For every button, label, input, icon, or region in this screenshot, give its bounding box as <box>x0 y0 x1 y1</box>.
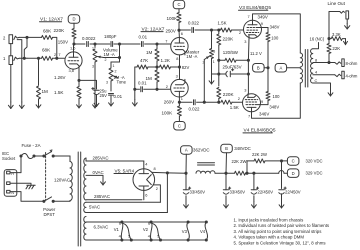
svg-text:1.5K: 1.5K <box>218 21 227 26</box>
svg-text:33/450V: 33/450V <box>190 189 206 194</box>
resistor 68K bottom <box>27 57 42 59</box>
tube V2 lower triode flipped <box>171 79 189 97</box>
svg-text:C: C <box>292 159 295 164</box>
svg-text:9: 9 <box>261 99 263 104</box>
svg-text:1.5K: 1.5K <box>230 105 239 110</box>
ground common <box>330 90 332 97</box>
svg-text:2: 2 <box>238 96 240 101</box>
svg-text:A: A <box>280 65 283 70</box>
svg-text:120VAC: 120VAC <box>54 177 70 182</box>
tube V2 upper triode <box>171 38 188 55</box>
svg-text:1.5K: 1.5K <box>54 90 64 95</box>
svg-text:4-ohm: 4-ohm <box>346 73 358 78</box>
ground jack sleeve <box>10 102 12 109</box>
svg-text:25V: 25V <box>100 93 108 98</box>
wire jack2 shorting contact down <box>17 40 22 102</box>
wire jack2 tip <box>19 36 27 38</box>
svg-text:220K: 220K <box>223 37 235 42</box>
svg-text:1. Input jacks insulated from: 1. Input jacks insulated from chassis <box>234 217 305 222</box>
capacitor 22/450V on rail <box>253 173 255 190</box>
wire to V2 lower grid <box>157 88 171 90</box>
svg-text:33/450V: 33/450V <box>230 189 246 194</box>
node V2 lower plate <box>178 97 180 102</box>
resistor 22K 2W lower <box>226 172 235 174</box>
svg-text:349V: 349V <box>258 15 268 20</box>
ground cap2 <box>225 202 227 209</box>
wire 47K to ground bus <box>134 67 136 89</box>
svg-text:68K: 68K <box>43 28 52 33</box>
chassis ground IEC <box>10 183 31 185</box>
wire up to 22K upper row <box>245 172 248 175</box>
svg-text:1: 1 <box>213 60 215 64</box>
wire 68K top to grid node <box>53 37 57 58</box>
svg-text:V2: V2 <box>143 227 149 232</box>
node rectifier output <box>166 171 169 174</box>
svg-text:1,6: 1,6 <box>70 45 75 50</box>
transformer OT secondary <box>311 49 313 83</box>
svg-text:C: C <box>315 78 318 83</box>
transformer PT 5V winding <box>84 202 86 212</box>
svg-text:346V: 346V <box>259 112 269 117</box>
svg-text:1: 1 <box>92 47 94 51</box>
svg-text:120/5W: 120/5W <box>223 50 239 55</box>
svg-text:47K: 47K <box>140 58 149 63</box>
node D junction on rail <box>252 172 255 175</box>
capacitor 0.01 coupling <box>141 42 143 47</box>
svg-text:Tone: Tone <box>117 80 127 85</box>
wire common tap <box>313 83 331 90</box>
resistor 1.5K V3 grid <box>221 28 232 32</box>
node screen bus <box>266 66 269 69</box>
svg-text:0.0022: 0.0022 <box>82 36 96 41</box>
wire to node C box <box>282 160 288 162</box>
ground volume <box>94 102 96 109</box>
svg-text:0.022: 0.022 <box>188 21 200 26</box>
node V2 upper plate <box>177 29 180 32</box>
svg-text:100K: 100K <box>162 111 174 116</box>
svg-text:Fuse - 2A: Fuse - 2A <box>22 143 41 148</box>
resistor 120/5W cathode <box>225 58 236 62</box>
wire wiper to signal <box>104 57 120 59</box>
svg-text:22/450V: 22/450V <box>285 189 301 194</box>
svg-text:8-ohm: 8-ohm <box>346 61 358 66</box>
ground 3.3K <box>345 39 347 45</box>
jack line out <box>340 11 345 13</box>
svg-text:5. Speaker is Celestion Vintag: 5. Speaker is Celestion Vintage 30, 12",… <box>234 240 327 245</box>
pot Volume 1M-A <box>94 44 96 48</box>
node jack1 tip <box>23 57 26 60</box>
svg-text:1M: 1M <box>146 50 153 55</box>
svg-text:0.01: 0.01 <box>139 35 148 40</box>
svg-text:7: 7 <box>165 39 167 44</box>
node B junction <box>224 172 227 175</box>
heater V4 <box>205 220 208 223</box>
ground 1M <box>38 102 40 109</box>
transformer OT core <box>304 50 306 88</box>
V5 pin6 wire <box>143 190 145 199</box>
ground cap1 <box>185 202 187 209</box>
node cathode rail 120 <box>247 59 250 62</box>
svg-text:7: 7 <box>248 14 250 19</box>
resistor 220K V4 grid leak <box>218 74 220 86</box>
ground cap D <box>253 202 255 209</box>
capacitor 0.0022 <box>74 43 85 45</box>
resistor 1M upper <box>155 49 159 61</box>
ground master and cathode tap <box>211 78 213 85</box>
wire volume bottom to ground <box>94 64 96 102</box>
wire jack1 sleeve down <box>10 65 12 103</box>
ground jack contact <box>21 102 23 109</box>
svg-text:B: B <box>257 65 260 70</box>
svg-text:1M -A: 1M -A <box>104 52 115 57</box>
svg-text:2: 2 <box>239 30 241 35</box>
svg-text:3: 3 <box>244 88 246 93</box>
resistor 100K V2 upper plate <box>178 9 180 13</box>
svg-text:348V: 348V <box>269 105 279 110</box>
node jack2 tip <box>25 36 28 39</box>
resistor 220K V3 grid leak <box>218 30 220 34</box>
resistor 3.3K line out <box>329 38 331 40</box>
node C feed <box>280 159 283 162</box>
switch link dashed <box>45 153 47 200</box>
node C supply top <box>173 0 185 9</box>
resistor 100 screen V4 <box>266 92 270 101</box>
resistor 220K plate V1 <box>73 23 75 28</box>
svg-text:16 (NC): 16 (NC) <box>310 36 325 41</box>
wire 5VAC a <box>86 201 160 203</box>
svg-text:C: C <box>177 2 180 7</box>
jack 4 ohm <box>335 74 341 76</box>
svg-text:285VAC: 285VAC <box>93 156 109 161</box>
svg-text:2: 2 <box>166 84 168 89</box>
svg-text:0.01: 0.01 <box>114 94 123 99</box>
ground 25u <box>96 100 98 107</box>
svg-text:8: 8 <box>154 166 156 171</box>
wire line out to jack <box>329 12 340 39</box>
ground tone cap <box>110 100 112 107</box>
svg-text:3: 3 <box>106 81 108 85</box>
heater V1 <box>120 220 123 223</box>
svg-text:B: B <box>225 146 228 151</box>
resistor 47K tail <box>137 65 148 69</box>
node V1 plate <box>72 42 75 45</box>
svg-text:7: 7 <box>248 113 250 118</box>
svg-text:22K: 22K <box>332 46 340 51</box>
capacitor 0.01 PI ground ref <box>133 88 136 91</box>
V4 screen wire <box>260 104 268 106</box>
resistor 1.2K <box>160 65 171 69</box>
svg-text:220K: 220K <box>223 92 235 97</box>
capacitor 180pF bright <box>95 43 110 45</box>
wire 16 ohm tap NC <box>313 43 319 49</box>
wire rail to D with hop <box>254 172 279 174</box>
svg-text:1: 1 <box>181 96 183 101</box>
B+ rail <box>167 172 186 174</box>
node D box psu <box>287 169 299 178</box>
wire neutral to switch <box>10 192 44 202</box>
transformer OT primary <box>300 53 302 67</box>
svg-text:100K: 100K <box>167 16 179 21</box>
V3 plate wire to OT <box>253 14 301 53</box>
node tail junction <box>155 65 158 68</box>
ground PI bus <box>134 89 136 99</box>
svg-text:2: 2 <box>115 70 117 74</box>
svg-text:260V: 260V <box>164 100 174 105</box>
capacitor 25u 25V cathode bypass <box>79 80 97 89</box>
wire jack2 sleeve to jack1 <box>10 44 12 56</box>
resistor 1.5K cathode <box>77 87 81 99</box>
svg-text:348V: 348V <box>270 25 280 30</box>
svg-text:3: 3 <box>176 73 178 78</box>
svg-text:DPST: DPST <box>43 212 55 217</box>
transformer PT 6.3V winding <box>84 217 86 241</box>
capacitor 0.01 tone <box>109 93 114 95</box>
svg-text:2: 2 <box>156 186 158 191</box>
node B mid <box>253 64 265 73</box>
transformer PT HV secondary <box>84 158 86 200</box>
tube V3 pentode <box>244 20 262 38</box>
V3 screen wire <box>261 27 268 29</box>
svg-text:68K: 68K <box>42 48 51 53</box>
svg-text:285VAC: 285VAC <box>94 194 110 199</box>
wire master wiper to V4 line <box>203 60 205 103</box>
svg-text:D: D <box>292 171 295 176</box>
wire tip2 to tip1 jog <box>24 37 27 58</box>
wire 0VAC center <box>86 174 103 176</box>
svg-text:82V: 82V <box>182 65 190 70</box>
svg-text:11.2 V: 11.2 V <box>250 51 262 56</box>
svg-text:6: 6 <box>181 31 183 36</box>
wire 6.3VAC b <box>86 239 206 241</box>
node V2 grid <box>155 42 158 45</box>
svg-text:V4: V4 <box>200 229 206 234</box>
node V2 lower grid <box>155 88 158 91</box>
V3 cathode wire <box>247 38 250 60</box>
capacitor 22/450V on C <box>281 161 283 189</box>
svg-text:180pF: 180pF <box>104 34 117 39</box>
svg-text:1M -A: 1M -A <box>186 54 197 59</box>
svg-text:9: 9 <box>148 221 150 226</box>
node cathode R junction <box>217 59 220 62</box>
resistor 1.5K V4 grid <box>221 100 232 104</box>
node C box psu <box>287 157 299 166</box>
V5 pin8 cathode wire <box>152 171 167 174</box>
switch power bottom <box>44 197 52 201</box>
svg-text:220K: 220K <box>54 28 66 33</box>
wire 285VAC upper <box>86 160 144 162</box>
svg-text:V3: V3 <box>182 229 188 234</box>
svg-text:2. Individual runs of twisted: 2. Individual runs of twisted pair wires… <box>234 223 330 228</box>
svg-text:C: C <box>178 123 181 128</box>
wire 5VAC b <box>86 212 167 214</box>
svg-text:250V: 250V <box>166 29 176 34</box>
svg-text:D: D <box>72 17 75 22</box>
svg-text:9: 9 <box>261 21 263 26</box>
V2 cathode junction <box>179 55 181 67</box>
svg-text:150V: 150V <box>58 40 68 45</box>
capacitor 0.022 lower <box>179 101 192 103</box>
node D supply <box>68 15 80 23</box>
svg-text:3,8: 3,8 <box>69 68 74 73</box>
V5 pin4 wire <box>143 161 145 169</box>
transformer PT core <box>77 152 79 246</box>
svg-text:1: 1 <box>113 64 115 68</box>
svg-text:1.26V: 1.26V <box>54 75 66 80</box>
ground cap C <box>281 202 283 209</box>
V1 cathode wire <box>78 66 80 80</box>
svg-text:100: 100 <box>273 94 281 99</box>
svg-text:Line Out: Line Out <box>328 1 346 6</box>
svg-text:2: 2 <box>105 58 107 62</box>
svg-text:5: 5 <box>128 234 130 239</box>
resistor 100K V2 lower plate <box>177 106 181 116</box>
wire 8 ohm tap <box>313 62 335 64</box>
wire jack1 tip <box>19 57 27 59</box>
svg-text:0VAC: 0VAC <box>93 170 104 175</box>
ground line out jack <box>346 19 348 23</box>
heater V2 <box>150 220 153 223</box>
svg-text:100: 100 <box>271 36 279 41</box>
node V1 grid <box>55 57 58 60</box>
svg-text:22K 2W: 22K 2W <box>232 159 247 164</box>
switch power top <box>44 152 52 156</box>
svg-text:3: 3 <box>213 50 215 54</box>
svg-text:8: 8 <box>315 57 317 62</box>
svg-text:22K 2W: 22K 2W <box>252 152 267 157</box>
svg-text:1.2K: 1.2K <box>161 58 171 63</box>
resistor 1M grid leak <box>37 57 40 60</box>
svg-text:348VDC: 348VDC <box>234 146 251 151</box>
svg-text:3: 3 <box>92 64 94 68</box>
svg-text:5: 5 <box>157 234 159 239</box>
svg-text:329 VDC: 329 VDC <box>306 171 323 176</box>
wire 5VACb up to rail <box>166 173 168 213</box>
resistor 100 screen V3 <box>266 33 270 42</box>
tube V5 5AR4 <box>133 169 155 191</box>
svg-text:A: A <box>185 148 188 153</box>
wire fuse to switch <box>34 155 44 157</box>
pot Master 1M-A <box>211 30 213 49</box>
wire 6.3VAC a <box>86 221 206 223</box>
node volume top <box>93 42 96 45</box>
wire to 1.5K <box>212 29 219 31</box>
svg-text:362VDC: 362VDC <box>193 148 210 153</box>
pot Tone 1M-A <box>110 62 112 68</box>
svg-text:320 VDC: 320 VDC <box>306 158 323 163</box>
ground 0VAC <box>102 179 104 186</box>
svg-text:Socket: Socket <box>2 156 16 161</box>
svg-text:5VAC: 5VAC <box>89 205 100 210</box>
svg-text:6: 6 <box>145 192 147 197</box>
node C supply bottom <box>174 122 186 131</box>
tube V1 triode <box>65 52 82 69</box>
capacitor 25uF/63V cathode <box>217 72 220 75</box>
resistor 1M lower <box>155 70 159 82</box>
node A mid <box>275 64 287 73</box>
ground tap cathode <box>212 73 219 75</box>
svg-text:3. All wiring point to point u: 3. All wiring point to point using termi… <box>234 229 323 234</box>
wire 285VAC lower <box>86 199 142 201</box>
svg-text:9: 9 <box>119 221 121 226</box>
node A junction <box>184 172 187 175</box>
node A box <box>181 146 193 155</box>
wire hot to fuse <box>10 172 21 174</box>
wire 4 ohm tap <box>313 74 335 76</box>
svg-text:2, 7: 2, 7 <box>54 52 61 57</box>
node line out divider <box>327 37 330 40</box>
capacitor 33/450V first <box>185 173 187 190</box>
svg-text:22/450V: 22/450V <box>258 189 274 194</box>
jack 8 ohm <box>335 62 341 64</box>
resistor 22K 2W upper <box>254 159 265 163</box>
svg-text:0.01: 0.01 <box>138 81 147 86</box>
ground 1.5K <box>78 102 80 109</box>
tube V4 pentode flipped <box>243 94 261 112</box>
capacitor 33/450V second <box>225 173 227 190</box>
svg-text:1M: 1M <box>42 89 49 94</box>
cathode rail <box>247 60 249 74</box>
V4 plate wire to OT <box>252 83 301 118</box>
svg-text:0.022: 0.022 <box>189 106 201 111</box>
node B box <box>221 144 233 153</box>
wire grid node to V1 <box>57 57 65 59</box>
capacitor 0.022 upper <box>179 29 190 31</box>
svg-text:3.3K: 3.3K <box>332 32 341 37</box>
node 180pF out <box>118 42 121 45</box>
V5 pin2 wire <box>153 185 160 202</box>
svg-text:4. Voltages taken with a cheap: 4. Voltages taken with a cheap DMM <box>234 235 305 240</box>
wire to 0.01 <box>120 43 141 45</box>
wire to V2 grid <box>157 43 171 45</box>
choke <box>196 171 215 173</box>
svg-text:25uF/63V: 25uF/63V <box>223 65 242 70</box>
resistor 22K line out <box>327 61 330 64</box>
heater V3 <box>187 220 190 223</box>
svg-text:6.3VAC: 6.3VAC <box>94 224 109 229</box>
svg-text:3: 3 <box>244 39 246 44</box>
svg-text:8: 8 <box>176 56 178 61</box>
svg-text:V1: V1 <box>114 227 120 232</box>
resistor 68K top <box>27 36 42 38</box>
svg-text:V5: 5AR4: V5: 5AR4 <box>115 168 135 173</box>
transformer PT primary <box>69 156 71 162</box>
node master top <box>210 28 213 31</box>
